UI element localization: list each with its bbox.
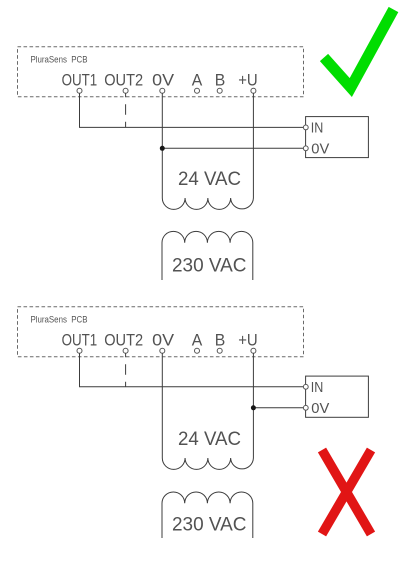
svg-text:OUT1: OUT1 xyxy=(62,330,98,349)
svg-text:0V: 0V xyxy=(311,141,329,157)
terminal OUT2 (bottom) xyxy=(123,348,128,353)
wire +U vertical to 24VAC winding (bottom) xyxy=(252,353,254,458)
terminal B (bottom) xyxy=(217,348,222,353)
terminal 0V xyxy=(160,88,165,93)
PCB U2 outline (dashed) xyxy=(18,307,304,357)
terminal A xyxy=(195,88,200,93)
svg-text:0V: 0V xyxy=(152,330,175,349)
terminal OUT1 xyxy=(77,88,82,93)
terminal OUT2 xyxy=(123,88,128,93)
box terminal 0V xyxy=(303,146,308,151)
transformer T2 230VAC primary winding (bottom) xyxy=(162,492,253,538)
wire OUT1 to IN (bottom) xyxy=(80,353,304,387)
wire +U branch to box 0V (incorrect) xyxy=(253,407,303,409)
svg-text:230 VAC: 230 VAC xyxy=(172,256,247,277)
incorrect-mark (red X) xyxy=(322,450,371,534)
controller box (top) xyxy=(306,117,369,158)
terminal +U (bottom) xyxy=(251,348,256,353)
svg-text:IN: IN xyxy=(311,380,324,396)
svg-text:+U: +U xyxy=(238,330,258,349)
transformer T1 24VAC secondary winding (top) xyxy=(162,198,253,209)
transformer T1 230VAC primary winding (top) xyxy=(162,231,253,280)
wire 0V vertical to 24VAC winding xyxy=(161,93,163,198)
svg-text:A: A xyxy=(192,70,203,89)
wire OUT2 stub (dashed, unused, bottom) xyxy=(125,353,127,387)
svg-text:B: B xyxy=(215,70,226,89)
terminal A (bottom) xyxy=(195,348,200,353)
svg-text:IN: IN xyxy=(311,121,324,137)
box terminal IN xyxy=(303,125,308,130)
svg-text:OUT2: OUT2 xyxy=(104,70,143,89)
box terminal 0V (bottom) xyxy=(303,405,308,410)
wire 0V vertical to 24VAC winding (bottom) xyxy=(161,353,163,458)
terminal +U xyxy=(251,88,256,93)
PCB U1 outline (dashed) xyxy=(18,47,304,97)
terminal B xyxy=(217,88,222,93)
svg-text:24 VAC: 24 VAC xyxy=(178,169,241,190)
wire +U vertical to 24VAC winding xyxy=(252,93,254,198)
svg-text:A: A xyxy=(192,330,203,349)
svg-text:OUT2: OUT2 xyxy=(104,330,143,349)
svg-text:0V: 0V xyxy=(311,401,329,417)
svg-text:24 VAC: 24 VAC xyxy=(178,429,241,450)
terminal 0V (bottom) xyxy=(160,348,165,353)
svg-text:OUT1: OUT1 xyxy=(62,70,98,89)
svg-text:230 VAC: 230 VAC xyxy=(172,515,247,536)
wire OUT2 stub (dashed, unused) xyxy=(125,93,127,127)
box terminal IN (bottom) xyxy=(303,384,308,389)
controller box (bottom) xyxy=(306,376,369,417)
svg-text:0V: 0V xyxy=(152,70,175,89)
wire OUT1 to IN xyxy=(80,93,304,127)
junction dot at +U branch (incorrect) xyxy=(251,405,256,410)
svg-text:PluraSens PCB: PluraSens PCB xyxy=(31,315,88,325)
svg-text:PluraSens PCB: PluraSens PCB xyxy=(31,55,88,65)
terminal OUT1 (bottom) xyxy=(77,348,82,353)
wire 0V branch to box 0V xyxy=(162,147,303,149)
junction dot at 0V branch xyxy=(160,146,165,151)
svg-text:B: B xyxy=(215,330,226,349)
correct-mark (green check) xyxy=(324,10,394,88)
transformer T2 24VAC secondary winding (bottom) xyxy=(162,458,253,469)
svg-text:+U: +U xyxy=(238,70,258,89)
